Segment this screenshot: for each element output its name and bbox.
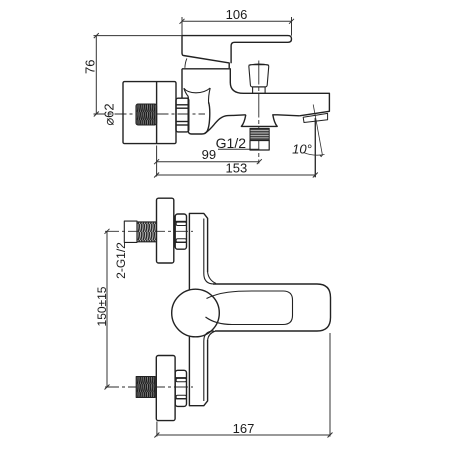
svg-text:⌀62: ⌀62 xyxy=(102,103,117,125)
svg-text:2-G1/2: 2-G1/2 xyxy=(114,242,128,279)
svg-text:150±15: 150±15 xyxy=(95,286,109,326)
svg-text:153: 153 xyxy=(226,160,248,175)
svg-text:99: 99 xyxy=(202,147,216,162)
svg-text:10°: 10° xyxy=(292,141,312,156)
svg-text:76: 76 xyxy=(83,60,98,74)
svg-text:167: 167 xyxy=(233,421,255,436)
svg-text:106: 106 xyxy=(226,7,248,22)
svg-text:G1/2: G1/2 xyxy=(216,135,247,151)
